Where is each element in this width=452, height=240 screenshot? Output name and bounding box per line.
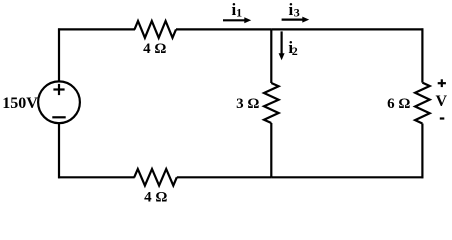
current label i2 bbox=[288, 38, 297, 58]
resistor R1 4 ohm top bbox=[135, 21, 177, 38]
wire bottom-right segment (node B to right corner) bbox=[271, 176, 423, 178]
current label i3 bbox=[289, 0, 300, 19]
label R2 value 3 ohm bbox=[236, 96, 259, 112]
wire bottom-left segment bbox=[58, 176, 135, 178]
source plus sign bbox=[53, 84, 64, 95]
wire left vertical top (corner to source) bbox=[58, 28, 60, 82]
resistor R2 3 ohm middle bbox=[264, 83, 279, 123]
current label i1 bbox=[232, 0, 243, 20]
current arrow i2 bbox=[279, 31, 285, 60]
svg-text:4 Ω: 4 Ω bbox=[143, 41, 166, 57]
label source value 150V bbox=[2, 95, 38, 112]
svg-text:i: i bbox=[289, 0, 294, 19]
wire middle branch bottom (resistor to node B) bbox=[270, 123, 272, 177]
svg-text:150V: 150V bbox=[2, 95, 38, 112]
wire right vertical top (corner to resistor) bbox=[421, 28, 423, 82]
svg-text:4 Ω: 4 Ω bbox=[144, 190, 167, 206]
svg-text:2: 2 bbox=[292, 44, 298, 58]
voltage source VS 150V bbox=[38, 81, 80, 123]
wire top-left segment bbox=[58, 28, 135, 30]
wire bottom-middle segment (resistor to node B) bbox=[177, 176, 271, 178]
current arrow i3 bbox=[282, 17, 310, 23]
node B (bottom junction) bbox=[270, 176, 272, 177]
resistor R3 6 ohm right bbox=[415, 83, 430, 124]
label R3 value 6 ohm bbox=[387, 96, 410, 112]
svg-text:3: 3 bbox=[294, 5, 300, 19]
wire left vertical bottom (source to corner) bbox=[58, 122, 60, 178]
svg-text:6 Ω: 6 Ω bbox=[387, 96, 410, 112]
label V voltage bbox=[436, 93, 448, 110]
label R1 value 4 ohm bbox=[143, 41, 166, 57]
label R4 value 4 ohm bbox=[144, 190, 167, 206]
resistor R4 4 ohm bottom bbox=[134, 169, 177, 186]
svg-text:1: 1 bbox=[236, 6, 242, 20]
wire top-middle segment (resistor to node A) bbox=[176, 28, 271, 30]
wire middle branch top (node A to resistor) bbox=[270, 29, 272, 83]
label V polarity minus bbox=[440, 117, 445, 119]
current arrow i1 bbox=[223, 17, 251, 23]
label V polarity plus bbox=[438, 79, 446, 87]
wire right vertical bottom (resistor to corner) bbox=[421, 124, 423, 179]
wire top-right segment (node A to right corner) bbox=[271, 28, 423, 30]
source minus sign bbox=[52, 116, 65, 118]
svg-text:3 Ω: 3 Ω bbox=[236, 96, 259, 112]
svg-text:V: V bbox=[436, 93, 448, 110]
node A (top junction) bbox=[270, 29, 272, 30]
